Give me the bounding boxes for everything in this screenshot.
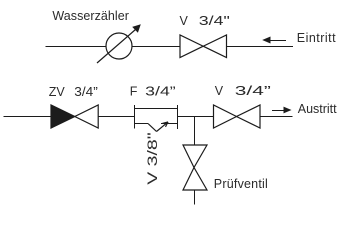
valve Prüfventil (vertical bowtie) (183, 145, 207, 190)
svg-text:3/4”: 3/4” (235, 84, 271, 98)
svg-text:ZV: ZV (49, 85, 66, 99)
wire stub below test valve (194, 190, 196, 205)
wire top inlet-left segment (46, 46, 107, 48)
svg-text:F: F (130, 85, 138, 99)
valve ZV 3/4" (filled left triangle) (51, 105, 98, 128)
svg-text:Wasserzähler: Wasserzähler (52, 9, 128, 23)
filter F 3/4" (box with backwash drain arrow) (135, 105, 178, 132)
label Eintritt (297, 31, 336, 45)
svg-text:3/4”: 3/4” (145, 85, 176, 99)
wire bottom left segment (4, 116, 52, 118)
flow arrow Austritt (pointing right) (272, 107, 292, 114)
svg-text:V: V (215, 84, 224, 98)
svg-text:V 3/8": V 3/8" (144, 132, 160, 185)
valve V 3/4" right (bowtie) (214, 105, 261, 128)
label V 3/4" (right valve) (215, 84, 271, 98)
wire filter to valve V right (with T junction) (178, 116, 214, 118)
flow arrow Eintritt (pointing left) (262, 37, 286, 44)
svg-text:Prüfventil: Prüfventil (214, 177, 268, 191)
svg-text:3/4": 3/4" (199, 14, 230, 28)
label F 3/4" (130, 85, 176, 99)
label Austritt (298, 102, 337, 116)
water meter arrow (diagonal with arrowhead) (97, 24, 141, 63)
label Prüfventil (214, 177, 268, 191)
svg-text:V: V (180, 14, 189, 28)
svg-text:3/4”: 3/4” (74, 85, 98, 99)
wire ZV valve to filter (98, 116, 134, 118)
wire valve to outlet end (260, 116, 293, 118)
valve V 3/4" top (bowtie) (180, 35, 227, 58)
svg-text:Austritt: Austritt (298, 102, 337, 116)
wire branch down to test valve (194, 117, 196, 146)
wire top between meter and valve V top (132, 46, 180, 48)
water meter body (circle) (106, 33, 132, 59)
svg-text:Eintritt: Eintritt (297, 31, 336, 45)
label V 3/4" (top valve) (180, 14, 230, 28)
wire top valve to inlet end (227, 46, 294, 48)
label Wasserzähler (52, 9, 128, 23)
label V 3/8" (rotated, drain valve) (144, 132, 160, 185)
label ZV 3/4" (49, 85, 98, 99)
